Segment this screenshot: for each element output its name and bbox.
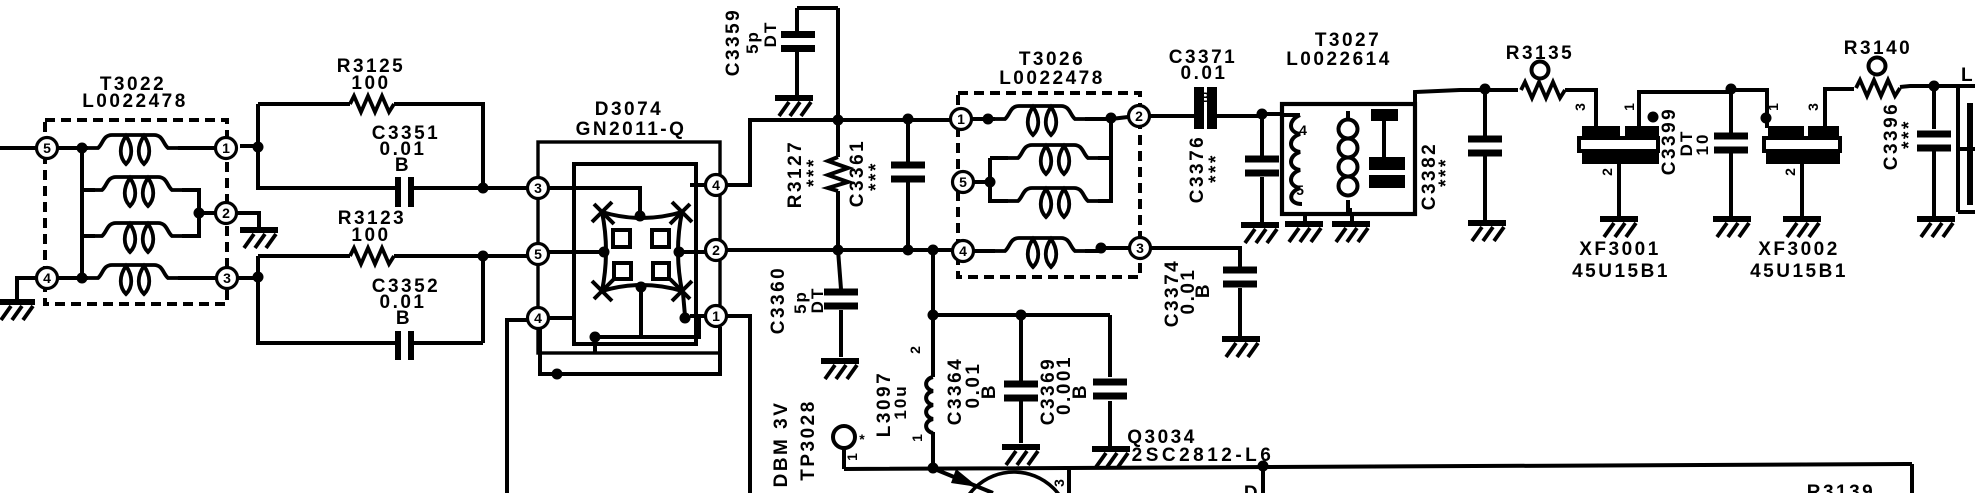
svg-text:5p: 5p: [743, 30, 762, 54]
svg-text:B: B: [395, 155, 411, 176]
svg-text:L0022478: L0022478: [82, 91, 188, 112]
svg-text:B: B: [1200, 89, 1210, 105]
svg-text:XF3001: XF3001: [1579, 239, 1661, 260]
svg-text:4: 4: [534, 310, 542, 326]
svg-text:100: 100: [351, 73, 390, 94]
svg-text:5: 5: [534, 246, 542, 262]
svg-text:45U15B1: 45U15B1: [1750, 261, 1848, 282]
svg-text:***: ***: [1899, 119, 1920, 149]
svg-text:3: 3: [223, 270, 231, 286]
svg-text:T3027: T3027: [1315, 30, 1381, 51]
svg-text:10u: 10u: [891, 384, 910, 419]
svg-text:C3359: C3359: [723, 8, 744, 77]
svg-text:5: 5: [959, 174, 967, 190]
svg-text:45U15B1: 45U15B1: [1572, 261, 1670, 282]
svg-text:1: 1: [957, 111, 965, 127]
svg-text:C3360: C3360: [768, 266, 789, 335]
svg-text:100: 100: [351, 225, 390, 246]
svg-text:R3140: R3140: [1844, 38, 1913, 59]
svg-text:GN2011-Q: GN2011-Q: [576, 119, 687, 140]
svg-text:2: 2: [222, 205, 230, 221]
svg-text:2: 2: [1599, 168, 1615, 176]
svg-text:1: 1: [844, 453, 860, 461]
svg-text:3: 3: [534, 180, 542, 196]
svg-text:***: ***: [1436, 157, 1457, 187]
svg-text:4: 4: [712, 177, 720, 193]
svg-text:*: *: [859, 431, 865, 447]
svg-text:DT: DT: [808, 287, 827, 314]
svg-text:L0022478: L0022478: [999, 68, 1105, 89]
svg-text:1: 1: [712, 308, 720, 324]
svg-text:0.01: 0.01: [1181, 63, 1228, 84]
svg-text:XF3002: XF3002: [1758, 239, 1840, 260]
svg-text:10: 10: [1693, 133, 1712, 156]
svg-text:***: ***: [804, 157, 825, 187]
svg-text:C3376: C3376: [1187, 135, 1208, 204]
svg-text:1: 1: [222, 140, 230, 156]
svg-text:2: 2: [1135, 108, 1143, 124]
svg-text:3: 3: [1572, 103, 1588, 111]
svg-text:5: 5: [1296, 182, 1304, 198]
svg-text:4: 4: [1299, 122, 1307, 138]
svg-text:5: 5: [43, 140, 51, 156]
svg-text:L0022614: L0022614: [1286, 49, 1392, 70]
svg-text:2SC2812-L6: 2SC2812-L6: [1132, 445, 1275, 466]
svg-text:3: 3: [1051, 479, 1067, 487]
svg-text:DT: DT: [761, 21, 780, 48]
svg-text:TP3028: TP3028: [798, 399, 819, 481]
svg-text:4: 4: [959, 243, 967, 259]
svg-text:B: B: [1193, 282, 1214, 298]
svg-text:1: 1: [909, 434, 925, 442]
svg-text:D3074: D3074: [595, 99, 664, 120]
svg-text:1: 1: [1621, 103, 1637, 111]
svg-text:C3361: C3361: [847, 139, 868, 208]
svg-text:2: 2: [1782, 168, 1798, 176]
svg-text:***: ***: [866, 161, 887, 191]
svg-text:R3139: R3139: [1807, 482, 1876, 493]
svg-text:D: D: [1244, 483, 1260, 493]
svg-text:L: L: [1961, 65, 1974, 86]
svg-text:B: B: [979, 383, 1000, 399]
svg-text:2: 2: [712, 242, 720, 258]
svg-text:R3135: R3135: [1506, 43, 1575, 64]
svg-text:DBM 3V: DBM 3V: [771, 401, 792, 488]
svg-text:***: ***: [1206, 153, 1227, 183]
svg-text:B: B: [396, 308, 412, 329]
svg-text:3: 3: [1136, 240, 1144, 256]
svg-text:T3026: T3026: [1019, 49, 1085, 70]
svg-text:2: 2: [907, 346, 923, 354]
svg-text:R3127: R3127: [785, 140, 806, 209]
svg-text:3: 3: [1805, 103, 1821, 111]
svg-text:B: B: [1070, 383, 1091, 399]
svg-text:1: 1: [1765, 103, 1781, 111]
svg-text:4: 4: [43, 270, 51, 286]
